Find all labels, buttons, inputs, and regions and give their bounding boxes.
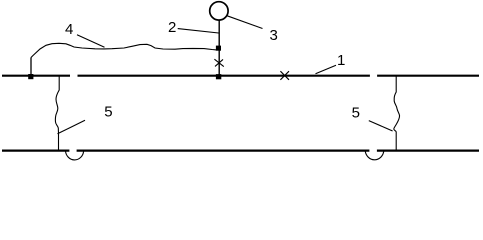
X mark on line	[280, 71, 289, 80]
wire: overhead line 1, left segment	[2, 75, 70, 77]
svg-text:1: 1	[337, 52, 345, 69]
wire: right down-lead 5 (wavy drop to ground)	[394, 76, 400, 150]
svg-text:5: 5	[352, 104, 360, 121]
svg-text:5: 5	[104, 103, 112, 120]
arc: left earthing loop under ground line	[66, 151, 84, 160]
svg-text:3: 3	[270, 27, 278, 44]
node: junction square on line at left	[28, 74, 33, 79]
leader line to label 3	[227, 16, 262, 29]
leader line to label 1	[316, 65, 337, 74]
insulator: circle 3 on top of riser	[210, 2, 228, 20]
node: junction square riser to line	[216, 74, 221, 79]
wire: overhead line 1, middle segment	[78, 75, 370, 77]
arc: right earthing loop under ground line	[365, 151, 384, 160]
svg-text:2: 2	[168, 19, 176, 36]
X mark on riser	[214, 59, 223, 66]
wire: ground line, left segment	[2, 150, 69, 152]
leader line to right label 5	[369, 121, 393, 131]
wire: ground line, middle segment	[77, 150, 370, 152]
wire: aerial cable 4 (wavy)	[31, 43, 217, 57]
wire: vertical riser from circle down to line	[218, 20, 220, 75]
wire: ground line, right segment	[377, 150, 479, 152]
leader line to label 4	[77, 35, 105, 48]
wire: vertical stub from left node up to cable	[30, 58, 32, 76]
leader line to left label 5	[58, 120, 86, 134]
svg-text:4: 4	[65, 21, 73, 38]
wire: overhead line 1, right segment	[377, 75, 479, 77]
node: cable joint square on riser	[216, 46, 221, 51]
wire: left down-lead 5 (wavy drop to ground)	[55, 76, 59, 150]
leader line to label 2	[178, 29, 219, 33]
